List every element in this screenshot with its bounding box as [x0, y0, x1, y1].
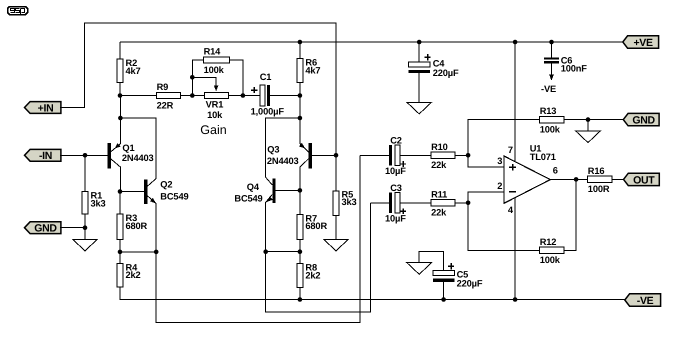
junction -IN R1: [83, 153, 88, 158]
svg-text:7: 7: [508, 145, 513, 155]
wire R2 bottom to main node: [119, 83, 121, 96]
capacitor C3 plates: [395, 193, 400, 214]
wire -IN to Q1 base: [60, 154, 107, 156]
wire R4 top: [119, 252, 121, 263]
svg-text:10µF: 10µF: [385, 214, 406, 224]
svg-text:R12: R12: [540, 237, 557, 247]
wire Q1 emitter: [111, 96, 121, 152]
arrow to -VE under C6: [549, 75, 554, 81]
wire pin2 node down: [468, 203, 539, 251]
svg-text:6: 6: [553, 165, 558, 175]
junction R3 R4: [118, 250, 123, 255]
connector +IN tag: [25, 102, 61, 114]
wire R2 top: [119, 42, 121, 59]
wire Q4 emitter: [266, 194, 273, 251]
wire Q1 collector: [111, 159, 121, 192]
wire R6 top: [299, 42, 301, 59]
junction +IN R5 Q3 base: [334, 153, 339, 158]
resistor VR1 body: [205, 92, 229, 98]
wire +IN to top route: [60, 23, 336, 155]
junction C4 rail: [417, 40, 422, 45]
svg-text:2: 2: [497, 181, 502, 191]
wire R1 bottom: [84, 214, 86, 228]
svg-text:GND: GND: [632, 115, 655, 127]
junction R7 R8: [298, 249, 303, 254]
junction R6 rail: [298, 40, 303, 45]
svg-text:1,000µF: 1,000µF: [251, 107, 285, 117]
svg-text:10k: 10k: [207, 110, 223, 120]
svg-text:GND: GND: [34, 223, 57, 235]
wire pin2 jog: [468, 192, 504, 203]
connector OUT tag: [624, 173, 660, 185]
wire Q4 emitter route: [266, 203, 371, 312]
wire R8 bottom: [299, 287, 301, 299]
junction R13 ground: [586, 117, 591, 122]
wire op-amp output: [550, 178, 587, 180]
svg-text:C3: C3: [390, 183, 402, 193]
svg-text:Gain: Gain: [200, 123, 226, 137]
wire junction line stage2: [266, 251, 300, 253]
junction Q3 emitter tap: [298, 116, 303, 121]
svg-text:R9: R9: [157, 82, 169, 92]
wire R7 bottom: [299, 239, 301, 251]
transistor Q1 bar: [107, 143, 110, 168]
wire R7 top: [299, 190, 301, 214]
svg-text:220µF: 220µF: [433, 68, 459, 78]
VR1 wiper arrow: [214, 85, 219, 91]
wire Q2 emitter: [147, 196, 156, 252]
wire C1 right to R6 node: [270, 95, 300, 97]
svg-text:22k: 22k: [431, 160, 447, 170]
svg-text:OUT: OUT: [633, 174, 655, 186]
wire Q3 collector: [300, 159, 309, 191]
op-amp U1 triangle: [504, 156, 550, 203]
resistor R7 body: [297, 214, 303, 239]
wire R5 bottom: [335, 216, 337, 240]
svg-text:+VE: +VE: [633, 37, 653, 49]
wire +VE rail: [120, 41, 623, 43]
wire Q1e to Q2c link: [120, 118, 156, 186]
svg-text:R13: R13: [540, 106, 557, 116]
junction pin2 node: [466, 201, 471, 206]
svg-text:R14: R14: [204, 47, 222, 57]
svg-text:C1: C1: [260, 72, 272, 82]
wire junction line stage1: [120, 251, 156, 253]
op-amp - input mark: [509, 191, 516, 193]
junction main-R14 right C1: [241, 93, 246, 98]
svg-text:2N4403: 2N4403: [267, 156, 299, 166]
wire R12 right up to output: [564, 179, 576, 250]
junction Q1 emitter tap: [118, 116, 123, 121]
op-amp + input mark: [509, 164, 516, 171]
svg-text:Q2: Q2: [160, 180, 172, 190]
wire C4 top: [418, 42, 420, 62]
svg-text:-VE: -VE: [541, 84, 556, 94]
resistor R13 body: [539, 116, 563, 122]
resistor R8 body: [297, 264, 303, 288]
svg-text:+IN: +IN: [38, 102, 54, 114]
wire R5 top: [335, 155, 337, 191]
svg-text:2N4403: 2N4403: [122, 153, 154, 163]
wire R1 top: [84, 155, 86, 191]
junction R6 bottom C1: [298, 93, 303, 98]
junction Q4 emitter: [263, 249, 268, 254]
wire GND tag to R1 bottom node: [60, 227, 85, 229]
wire C5 top to ground: [419, 252, 443, 271]
wire Q2 base: [120, 191, 144, 193]
svg-text:R16: R16: [588, 166, 605, 176]
svg-text:22k: 22k: [431, 208, 447, 218]
svg-text:4k7: 4k7: [126, 66, 141, 76]
svg-text:Q1: Q1: [122, 143, 134, 153]
svg-text:2k2: 2k2: [126, 270, 141, 280]
wire R14 right leg: [229, 60, 243, 96]
Q3 emitter arrow: [299, 143, 305, 149]
svg-text:10µF: 10µF: [385, 166, 406, 176]
resistor R16 body: [588, 176, 612, 182]
ground left input: [73, 239, 98, 251]
wire main line R9 VR1 segment: [120, 95, 260, 97]
resistor R12 body: [539, 247, 563, 253]
svg-text:100k: 100k: [540, 124, 561, 134]
svg-text:Q3: Q3: [267, 145, 279, 155]
plus sign C1: [251, 87, 257, 93]
junction pin7 rail: [513, 40, 518, 45]
svg-text:3: 3: [497, 156, 502, 166]
svg-text:R10: R10: [431, 142, 448, 152]
svg-text:220µF: 220µF: [457, 279, 483, 289]
wire pin 4 supply: [514, 198, 516, 300]
capacitor C4 plates: [408, 62, 430, 67]
svg-text:680R: 680R: [126, 221, 148, 231]
svg-text:BC549: BC549: [160, 192, 188, 202]
resistor R9 body: [156, 92, 180, 98]
svg-text:C4: C4: [433, 59, 446, 69]
wire C3 left: [371, 202, 389, 204]
resistor R10 body: [431, 152, 455, 158]
wire Q3 emitter: [300, 96, 309, 152]
junction R8 -VE rail: [298, 297, 303, 302]
wire pin3 jog: [468, 155, 504, 167]
resistor R11 body: [431, 200, 455, 206]
capacitor C5 plates: [433, 271, 455, 276]
connector GND tag: [623, 113, 659, 125]
plus sign C5: [448, 263, 454, 269]
svg-text:4k7: 4k7: [305, 65, 320, 75]
svg-text:C2: C2: [390, 135, 402, 145]
connector -IN tag: [25, 149, 61, 161]
svg-text:Q4: Q4: [247, 182, 260, 192]
ground at R13: [576, 131, 601, 143]
capacitor C1 plates: [260, 85, 265, 106]
wire C3 right to R11: [400, 202, 431, 204]
junction R1 GND: [83, 225, 88, 230]
wire Q4 base: [276, 189, 300, 191]
wire C2 left: [360, 154, 389, 156]
wire R6 bottom: [299, 82, 301, 95]
wire R8 top: [299, 252, 301, 264]
svg-text:100k: 100k: [540, 255, 561, 265]
resistor R1 body: [82, 192, 88, 215]
svg-text:100R: 100R: [588, 184, 610, 194]
svg-text:BC549: BC549: [234, 194, 262, 204]
capacitor C2 plates: [395, 145, 400, 166]
resistor R6 body: [297, 59, 303, 83]
transistor Q3 bar: [309, 143, 312, 168]
wire Q1c to R3: [119, 192, 121, 215]
junction R14 tap: [190, 75, 195, 80]
capacitor C6 plates: [544, 57, 559, 59]
resistor R5 body: [333, 191, 339, 216]
junction C5 -VE rail: [441, 297, 446, 302]
transistor Q2 bar: [144, 180, 147, 205]
transistor Q4 bar: [272, 178, 275, 203]
wire Q4c to Q3e link: [266, 118, 300, 185]
ground under R5: [324, 239, 349, 251]
wire R4 bottom to -VE rail: [120, 287, 625, 300]
connector -VE tag: [625, 294, 661, 306]
junction Q2 emitter: [154, 250, 159, 255]
wire pin 7 supply: [514, 42, 516, 162]
wire R13 right to GND tag: [564, 119, 624, 121]
plus sign C2: [400, 161, 406, 167]
junction C6 rail: [549, 40, 554, 45]
wire C6 bottom: [551, 64, 553, 76]
svg-text:TL071: TL071: [530, 152, 556, 162]
svg-text:-VE: -VE: [637, 295, 654, 307]
Q1 emitter arrow: [115, 143, 121, 149]
ESP logo: [8, 7, 28, 15]
resistor R4 body: [117, 263, 123, 287]
svg-text:R11: R11: [431, 189, 447, 199]
connector +VE tag: [623, 36, 659, 48]
junction output node: [574, 177, 579, 182]
wire C5 bottom: [443, 282, 445, 300]
resistor R3 body: [117, 214, 123, 239]
junction main-R14 left: [190, 93, 195, 98]
wire R10 to pin3 node: [455, 154, 468, 156]
svg-text:2k2: 2k2: [305, 270, 320, 280]
wire C2 right to R10: [400, 154, 431, 156]
plus sign C3: [400, 209, 406, 215]
wire C4 bottom: [418, 73, 420, 102]
junction pin4 -VE rail: [513, 297, 518, 302]
Q4 emitter arrow: [267, 196, 273, 202]
connector GND tag: [25, 222, 61, 234]
wire Q2 emitter route: [156, 155, 360, 322]
wire gnd stem left: [84, 228, 86, 240]
svg-text:100nF: 100nF: [561, 64, 588, 74]
svg-text:100k: 100k: [204, 65, 225, 75]
wire C6 top: [551, 42, 553, 57]
junction Q1c Q2b R3: [118, 189, 123, 194]
svg-text:22R: 22R: [157, 100, 174, 110]
svg-text:VR1: VR1: [206, 99, 224, 109]
plus sign C4: [424, 54, 430, 60]
junction pin3 node: [466, 153, 471, 158]
svg-text:3k3: 3k3: [342, 197, 357, 207]
wire R16 to OUT tag: [612, 178, 624, 180]
junction main-R2-R9: [118, 93, 123, 98]
svg-text:680R: 680R: [305, 221, 327, 231]
ground at C5: [407, 263, 432, 275]
wire gnd stem R13: [587, 120, 589, 131]
wire R3 bottom: [119, 239, 121, 252]
Q2 emitter arrow: [150, 198, 156, 204]
resistor R2 body: [117, 59, 123, 83]
wire R11 to pin2 node: [455, 202, 468, 204]
wire pin3 node up to R13: [468, 120, 539, 156]
ground under C4: [407, 102, 432, 114]
svg-text:-IN: -IN: [39, 150, 52, 162]
wire R14 tap branch: [192, 77, 216, 86]
wire Q3 base: [312, 154, 337, 156]
wire R14 left leg: [192, 60, 203, 96]
svg-text:3k3: 3k3: [91, 198, 106, 208]
resistor R14 body: [203, 57, 229, 63]
junction Q3c Q4b R7: [298, 188, 303, 193]
